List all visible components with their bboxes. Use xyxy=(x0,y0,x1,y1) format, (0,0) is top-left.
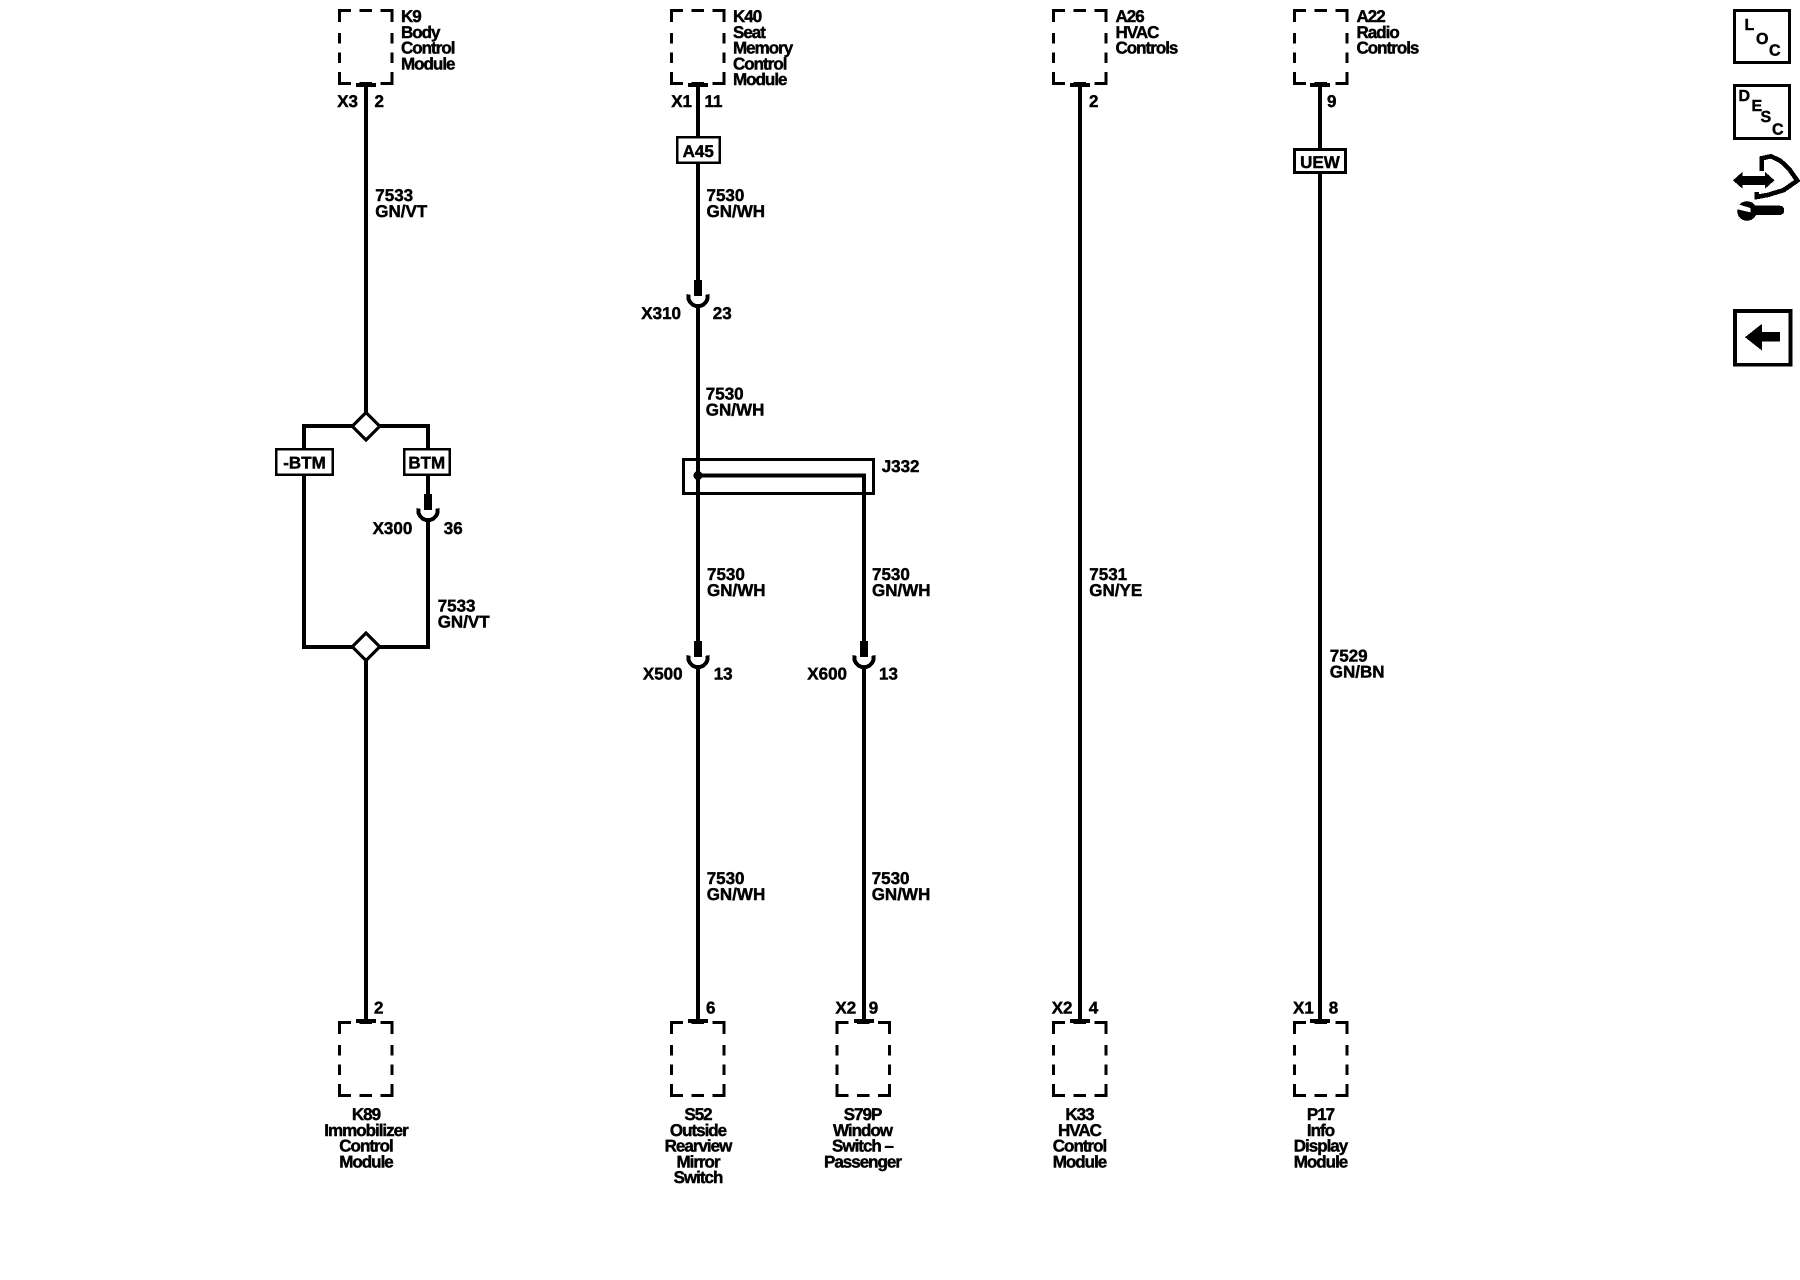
icon data link double arrow xyxy=(1733,172,1775,189)
wire X500 to S52 pin 6, circuit 7530 xyxy=(696,667,700,1021)
wire lower splice to K89 pin 2 xyxy=(364,647,368,1021)
svg-text:13: 13 xyxy=(879,665,898,684)
wire K40 X1-11 to fuse A45 xyxy=(696,85,700,138)
svg-text:6: 6 xyxy=(706,999,715,1018)
pin tick K89 pin 2 xyxy=(356,1019,376,1023)
connector X310 pin 23 inline xyxy=(688,280,707,306)
svg-text:C: C xyxy=(1772,122,1784,139)
icon data link outline arrow xyxy=(1757,156,1798,197)
wire A26 pin 2 to K33 X2-4, circuit 7531 xyxy=(1078,85,1082,1021)
svg-text:Passenger: Passenger xyxy=(824,1152,902,1171)
module S79P Window Switch - Passenger (dashed box) xyxy=(837,1023,889,1096)
module K33 HVAC Control Module (dashed box) xyxy=(1054,1023,1106,1096)
wire A45 to connector X310, circuit 7530 xyxy=(696,163,700,281)
connector X300 pin 36 inline xyxy=(418,494,437,520)
svg-text:13: 13 xyxy=(714,665,733,684)
svg-text:Module: Module xyxy=(339,1152,393,1171)
svg-text:23: 23 xyxy=(713,304,732,323)
wire X310 through splice pack J332, circuit 7530 xyxy=(696,306,700,642)
wire BTM to connector X300 xyxy=(426,476,430,494)
splice diamond upper xyxy=(352,413,379,440)
icon back arrow box xyxy=(1735,311,1791,365)
module A22 Radio Controls (dashed box) xyxy=(1295,11,1347,84)
wire X600 to S79P X2-9, circuit 7530 xyxy=(862,667,866,1021)
svg-text:X1: X1 xyxy=(671,92,692,111)
pin tick A26 pin 2 xyxy=(1070,83,1090,87)
svg-text:-BTM: -BTM xyxy=(283,454,325,473)
svg-text:GN/YE: GN/YE xyxy=(1089,581,1142,600)
svg-text:2: 2 xyxy=(375,92,384,111)
wire horizontal lower splice branch xyxy=(304,645,428,649)
wire horizontal splice top branch xyxy=(304,424,428,428)
module S52 Outside Rearview Mirror Switch (dashed box) xyxy=(672,1023,724,1096)
pin tick K9 X3-2 xyxy=(356,83,376,87)
component BTM box xyxy=(404,449,449,474)
svg-text:J332: J332 xyxy=(882,457,920,476)
svg-text:2: 2 xyxy=(1089,92,1098,111)
pin tick A22 pin 9 xyxy=(1310,83,1330,87)
svg-text:X2: X2 xyxy=(1052,999,1073,1018)
svg-text:BTM: BTM xyxy=(408,454,445,473)
wire J332 branch horizontal xyxy=(698,474,866,478)
module P17 Info Display Module (dashed box) xyxy=(1295,1023,1347,1096)
svg-text:Module: Module xyxy=(733,70,787,89)
wire right branch down to BTM xyxy=(426,424,430,448)
wire J332 branch down to X600, circuit 7530 xyxy=(862,474,866,643)
wire left branch down to -BTM xyxy=(302,424,306,448)
connector X600 pin 13 inline xyxy=(854,641,873,667)
svg-text:X600: X600 xyxy=(807,665,847,684)
pin tick S52 pin 6 xyxy=(688,1019,708,1023)
svg-text:GN/VT: GN/VT xyxy=(438,613,491,632)
component -BTM box xyxy=(276,449,332,474)
svg-text:UEW: UEW xyxy=(1300,153,1341,172)
icon LOC box xyxy=(1735,11,1790,63)
wire A22 pin 9 to fuse UEW xyxy=(1318,85,1322,150)
svg-text:9: 9 xyxy=(1327,92,1336,111)
icon wrench xyxy=(1737,201,1757,221)
pin tick K33 X2-4 xyxy=(1070,1019,1090,1023)
svg-text:Module: Module xyxy=(1053,1152,1107,1171)
wire X300 to lower splice, circuit 7533 xyxy=(426,520,430,649)
svg-text:Switch: Switch xyxy=(674,1168,723,1187)
svg-text:GN/WH: GN/WH xyxy=(872,885,931,904)
svg-text:X500: X500 xyxy=(643,665,683,684)
pin tick P17 X1-8 xyxy=(1310,1019,1330,1023)
svg-text:4: 4 xyxy=(1089,999,1099,1018)
svg-text:A45: A45 xyxy=(683,142,714,161)
splice diamond lower xyxy=(352,633,379,660)
svg-text:D: D xyxy=(1739,88,1751,105)
svg-text:GN/WH: GN/WH xyxy=(707,202,766,221)
splice pack J332 box xyxy=(684,460,874,494)
svg-text:GN/BN: GN/BN xyxy=(1330,663,1385,682)
svg-text:C: C xyxy=(1769,43,1781,60)
svg-text:Controls: Controls xyxy=(1357,39,1419,58)
svg-text:GN/WH: GN/WH xyxy=(707,885,766,904)
svg-text:11: 11 xyxy=(705,92,723,111)
wire -BTM down to lower splice xyxy=(302,476,306,649)
fuse A45 box xyxy=(677,137,719,162)
module K89 Immobilizer Control Module (dashed box) xyxy=(340,1023,392,1096)
svg-text:S: S xyxy=(1761,109,1772,126)
connector X500 pin 13 inline xyxy=(688,641,707,667)
fuse UEW box xyxy=(1295,150,1346,173)
pin tick K40 X1-11 xyxy=(688,83,708,87)
svg-text:GN/WH: GN/WH xyxy=(872,581,931,600)
svg-text:2: 2 xyxy=(374,999,383,1018)
pin tick S79P X2-9 xyxy=(854,1019,874,1023)
wire K9 X3-2 to splice diamond, circuit 7533 xyxy=(364,85,368,427)
svg-text:X2: X2 xyxy=(835,999,856,1018)
wire UEW to P17 X1-8, circuit 7529 xyxy=(1318,173,1322,1021)
svg-text:L: L xyxy=(1745,17,1755,34)
svg-text:X3: X3 xyxy=(337,92,358,111)
junction dot J332 xyxy=(694,471,703,480)
svg-text:36: 36 xyxy=(444,519,463,538)
svg-text:Module: Module xyxy=(1294,1152,1348,1171)
svg-text:GN/WH: GN/WH xyxy=(707,581,766,600)
svg-text:Module: Module xyxy=(401,54,455,73)
module K9 Body Control Module (dashed box) xyxy=(340,11,392,84)
svg-text:8: 8 xyxy=(1329,999,1338,1018)
icon DESC box xyxy=(1735,86,1790,139)
svg-text:GN/VT: GN/VT xyxy=(375,202,428,221)
svg-text:X310: X310 xyxy=(641,304,681,323)
svg-text:9: 9 xyxy=(869,999,878,1018)
svg-text:X1: X1 xyxy=(1293,999,1314,1018)
module K40 Seat Memory Control Module (dashed box) xyxy=(672,11,724,84)
svg-text:O: O xyxy=(1756,31,1768,48)
svg-text:X300: X300 xyxy=(373,519,413,538)
svg-text:GN/WH: GN/WH xyxy=(706,401,765,420)
svg-text:Controls: Controls xyxy=(1116,39,1178,58)
module A26 HVAC Controls (dashed box) xyxy=(1054,11,1106,84)
